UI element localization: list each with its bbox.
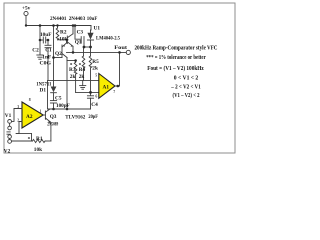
svg-text:(V1 – V2) < 2: (V1 – V2) < 2 [173, 92, 200, 99]
wire R3 bottom through ramp rail [75, 74, 77, 92]
capacitor C1 10uF horizontal [40, 37, 48, 43]
wire A2 inverting feedback to R1 node [16, 122, 22, 134]
wire reference node [84, 46, 91, 48]
svg-text:8: 8 [29, 98, 31, 102]
svg-text:U1: U1 [94, 26, 101, 32]
terminal V1 source [8, 120, 12, 130]
svg-text:5: 5 [95, 74, 97, 78]
capacitor C2 to ground [37, 55, 43, 59]
wire C1 1nF column [47, 40, 49, 45]
svg-text:R5: R5 [92, 59, 99, 65]
junction dots [25, 24, 121, 110]
resistor R3 2k [74, 61, 77, 75]
svg-text:1: 1 [40, 109, 42, 113]
wire C5 bottom to comparator wire [53, 103, 55, 109]
svg-text:D1: D1 [40, 88, 47, 94]
op-amp A2 [22, 102, 43, 128]
wire A1 output up to Fout rail [115, 52, 120, 86]
wire U1 column from bus corner [90, 26, 92, 31]
wire R4 bottom through ramp rail to ground [83, 68, 85, 81]
wire U1 cathode to reference node [90, 40, 92, 47]
svg-text:200kHz Ramp-Comparator style V: 200kHz Ramp-Comparator style VFC [135, 45, 218, 52]
wire reference column through output rail [90, 47, 92, 56]
svg-text:7: 7 [113, 90, 115, 94]
svg-text:2k: 2k [92, 65, 98, 71]
svg-text:*: * [28, 137, 31, 143]
wire V1 to A2 noninverting input [12, 109, 23, 122]
svg-text:C0G: C0G [40, 61, 52, 67]
wire ramp rail to A1 noninverting input [48, 79, 99, 81]
svg-text:+5v: +5v [22, 5, 31, 11]
labels [4, 5, 127, 154]
svg-text:A1: A1 [103, 84, 110, 90]
svg-text:2: 2 [17, 119, 19, 123]
svg-text:10uF: 10uF [87, 16, 98, 22]
wire Q1 collector to bus [72, 26, 74, 34]
diode D1 1N5711 [51, 58, 57, 93]
svg-text:C3: C3 [77, 30, 84, 36]
transistor Q2 2N4403 [62, 43, 67, 58]
wire R5 bottom to A1 inverting input [90, 68, 92, 93]
wire A1 inverting input rail [76, 91, 99, 93]
wire C3 left lead from bus [75, 26, 81, 40]
svg-text:Q3: Q3 [50, 114, 57, 120]
svg-text:Q1: Q1 [75, 39, 82, 45]
svg-text:C4: C4 [91, 102, 98, 108]
wire D1 column from bus [53, 26, 55, 58]
transistor Q3 2N5089 [43, 109, 50, 122]
svg-text:R3: R3 [69, 67, 76, 73]
svg-text:1N5711: 1N5711 [36, 81, 52, 87]
wire ramp column to comparator node [47, 80, 49, 109]
svg-text:20pF: 20pF [88, 114, 98, 120]
svg-text:6: 6 [95, 94, 97, 98]
wire R3 top rail [67, 60, 76, 62]
zener U1 LM4040-2.5 [87, 30, 93, 40]
wire top supply bus [26, 25, 91, 27]
svg-text:Fout: Fout [114, 45, 127, 51]
svg-text:3: 3 [17, 105, 19, 109]
wire Q2 collector drop to comparator wire [66, 61, 68, 110]
svg-text:R1: R1 [36, 136, 43, 142]
svg-text:– 2 < V2 < V1: – 2 < V2 < V1 [170, 85, 200, 91]
svg-text:100pF: 100pF [56, 103, 70, 109]
svg-text:0 < V1 < 2: 0 < V1 < 2 [174, 76, 199, 82]
wire Q1 emitter to output rail [72, 46, 74, 52]
svg-text:10uF: 10uF [40, 32, 52, 38]
svg-text:2N4401: 2N4401 [50, 16, 67, 22]
svg-text:C2: C2 [32, 48, 39, 54]
title block [135, 45, 218, 99]
wire Q2 emitter to Q1 base wire [66, 40, 68, 43]
op-amp A1 [99, 74, 115, 99]
svg-text:R4: R4 [79, 67, 86, 73]
capacitor C5 100pF [50, 101, 56, 103]
ground symbol [80, 86, 86, 90]
svg-text:*** = 1% tolerance or better: *** = 1% tolerance or better [146, 55, 206, 61]
svg-text:A2: A2 [26, 114, 33, 120]
wire output rail to Fout [67, 51, 127, 53]
wire Q2 collector rail [54, 57, 63, 59]
wire Q1 base from R2 [58, 39, 68, 41]
svg-text:2N5089: 2N5089 [47, 121, 58, 127]
terminal Fout [126, 50, 130, 54]
svg-text:TLV9162: TLV9162 [65, 114, 85, 120]
svg-text:C1: C1 [45, 47, 52, 53]
svg-text:10k: 10k [34, 147, 42, 153]
wire D1 cathode to C5 [53, 93, 55, 101]
wire Q2 collector down [66, 58, 68, 61]
svg-text:V1: V1 [5, 113, 12, 119]
+5v supply terminal [24, 11, 28, 25]
wire V2 to R1 [12, 140, 33, 142]
svg-text:C5: C5 [55, 96, 62, 102]
border frame [4, 3, 235, 153]
wire ramp column down to ramp rail [47, 48, 49, 81]
svg-text:Fout = (V1 – V2) 100kHz: Fout = (V1 – V2) 100kHz [147, 65, 204, 72]
wire comparator input rail [48, 108, 91, 110]
svg-text:2k: 2k [79, 74, 85, 80]
wire Q3 emitter down to R1 node [49, 122, 52, 141]
wire C2 column drop [39, 26, 41, 41]
resistor R1 10k horizontal [33, 139, 46, 142]
capacitor C1 1nF C0G [45, 45, 51, 47]
svg-text:2N4403: 2N4403 [69, 16, 86, 22]
resistor R4 2k [82, 47, 85, 68]
wire C2 column lower [39, 40, 41, 55]
capacitor C4 20pF [87, 92, 93, 109]
wire R1 to Q3 emitter node [46, 140, 51, 142]
terminal V2 source [8, 135, 12, 144]
svg-text:R2: R2 [60, 30, 67, 36]
svg-text:Q2: Q2 [55, 51, 62, 57]
capacitor C3 10uF horizontal [81, 37, 84, 44]
svg-text:V2: V2 [4, 148, 11, 154]
svg-text:2k: 2k [70, 74, 76, 80]
resistor R2 10k [56, 26, 59, 40]
transistor Q1 2N4401 [67, 34, 73, 47]
svg-text:LM4040-2.5: LM4040-2.5 [96, 36, 120, 42]
wire C3 right lead down [83, 43, 85, 47]
resistor R5 2k [89, 56, 92, 68]
V1 V2 polarity marks [7, 132, 10, 134]
svg-text:10k: 10k [59, 37, 67, 43]
